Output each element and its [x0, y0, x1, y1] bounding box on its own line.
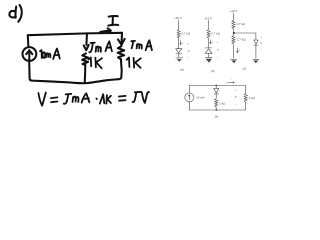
- svg-text:−: −: [260, 47, 262, 51]
- svg-text:2.7 kΩ: 2.7 kΩ: [211, 32, 221, 36]
- svg-text:+10 V: +10 V: [204, 17, 212, 21]
- svg-text:2.7 kΩ: 2.7 kΩ: [181, 32, 191, 36]
- svg-text:(d): (d): [215, 115, 219, 119]
- svg-text:10 mA: 10 mA: [196, 96, 204, 100]
- svg-text:−: −: [188, 55, 190, 59]
- svg-text:+10 V: +10 V: [174, 16, 182, 20]
- svg-text:1 kΩ: 1 kΩ: [219, 102, 226, 106]
- svg-text:−: −: [217, 56, 219, 60]
- svg-text:+10 V: +10 V: [230, 9, 238, 13]
- svg-text:+: +: [260, 35, 262, 39]
- svg-text:2.7 kΩ: 2.7 kΩ: [236, 22, 246, 26]
- svg-text:2.7 kΩ: 2.7 kΩ: [237, 38, 247, 42]
- svg-text:+: +: [187, 42, 189, 46]
- svg-text:(b): (b): [211, 69, 215, 73]
- svg-text:(a): (a): [180, 67, 184, 71]
- svg-text:+: +: [217, 40, 219, 44]
- svg-text:(c): (c): [243, 67, 247, 71]
- svg-text:1 kΩ: 1 kΩ: [249, 96, 256, 100]
